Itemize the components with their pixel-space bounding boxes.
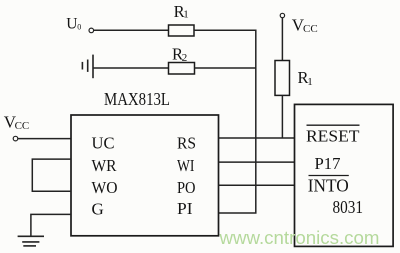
- svg-text:RS: RS: [177, 134, 196, 153]
- svg-text:1: 1: [183, 9, 189, 21]
- svg-text:G: G: [92, 199, 104, 218]
- svg-text:CC: CC: [303, 23, 318, 35]
- node U0 terminal: [89, 28, 94, 33]
- wire PO to INTO: [219, 184, 295, 186]
- wire WI to P17: [219, 161, 295, 163]
- wire U0 to R1: [94, 29, 169, 31]
- svg-text:UC: UC: [92, 134, 115, 153]
- svg-text:8031: 8031: [333, 197, 364, 217]
- power Vcc (left) terminal: [13, 136, 18, 141]
- label RESET (active low): [307, 124, 360, 126]
- svg-text:www.cntronics.com: www.cntronics.com: [218, 227, 379, 248]
- IC U2 8031 box: [295, 104, 394, 246]
- svg-text:U: U: [66, 16, 77, 33]
- svg-text:WI: WI: [177, 156, 195, 175]
- ground (input, sideways): [82, 55, 93, 79]
- svg-text:INTO: INTO: [308, 176, 349, 196]
- power Vcc (top right) terminal: [280, 13, 284, 17]
- resistor R1 (pull-up): [275, 61, 290, 96]
- svg-text:MAX813L: MAX813L: [104, 89, 170, 109]
- label INTO (active low): [309, 175, 349, 177]
- wire RS to RESET: [219, 137, 295, 139]
- svg-text:RESET: RESET: [306, 126, 360, 145]
- svg-text:0: 0: [77, 23, 81, 32]
- resistor R1 (top): [169, 25, 195, 36]
- wire R1 right then down to PI node: [194, 30, 256, 213]
- svg-text:PO: PO: [177, 178, 196, 197]
- IC U1 MAX813L box: [71, 115, 219, 236]
- wire G to ground: [31, 214, 71, 236]
- svg-text:WO: WO: [92, 178, 118, 197]
- svg-text:P17: P17: [315, 154, 341, 173]
- svg-text:1: 1: [307, 76, 313, 88]
- wire Vcc to UC pin: [18, 138, 71, 140]
- wire Vcc to R1 pull-up: [281, 18, 283, 61]
- svg-text:CC: CC: [15, 120, 30, 132]
- wire R1 pull-up to RESET line: [281, 95, 283, 138]
- wire R2 to PI vertical: [195, 67, 256, 69]
- wire ground to R2: [93, 67, 169, 69]
- wire WR-WO loop: [32, 159, 71, 191]
- svg-text:WR: WR: [92, 156, 118, 175]
- resistor R2: [169, 63, 195, 75]
- svg-text:PI: PI: [177, 199, 193, 218]
- ground (G pin): [18, 236, 44, 246]
